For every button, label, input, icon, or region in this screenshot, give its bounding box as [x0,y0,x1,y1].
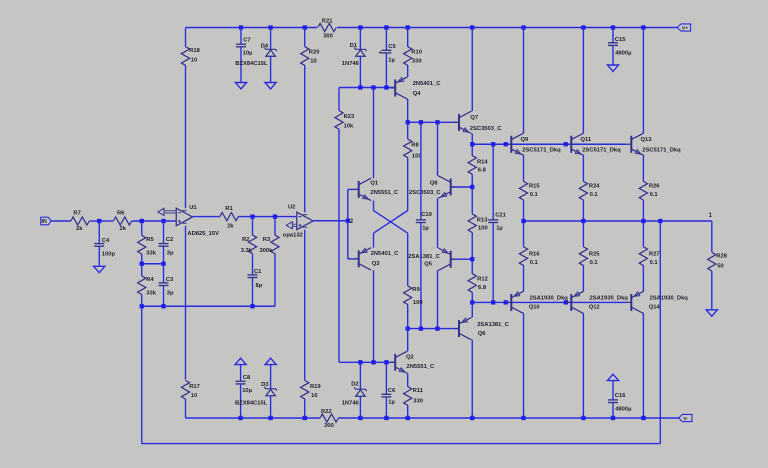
svg-text:100: 100 [413,300,423,306]
svg-text:Q13: Q13 [641,137,653,143]
svg-text:R6: R6 [117,210,125,216]
svg-text:2SC3503_C: 2SC3503_C [470,126,502,132]
svg-text:R13: R13 [477,217,488,223]
svg-text:R8: R8 [411,143,419,149]
svg-text:2SC5171_Dkq: 2SC5171_Dkq [642,148,681,154]
svg-text:330: 330 [413,399,423,405]
svg-text:R28: R28 [716,253,727,259]
svg-text:Q1: Q1 [370,181,379,187]
svg-text:C2: C2 [166,237,173,243]
svg-text:IN: IN [42,219,47,225]
svg-text:C4: C4 [102,238,110,244]
svg-text:Q2: Q2 [406,355,414,361]
svg-text:AD825_15V: AD825_15V [187,231,219,237]
svg-text:R27: R27 [649,251,660,257]
svg-text:3.3k: 3.3k [241,248,253,254]
svg-text:D4: D4 [261,43,269,49]
svg-text:0.1: 0.1 [590,192,599,198]
svg-text:opa132: opa132 [283,233,303,239]
svg-text:R4: R4 [146,277,154,283]
svg-text:R10: R10 [411,50,422,56]
svg-text:R14: R14 [477,160,488,166]
svg-text:300: 300 [324,423,334,429]
svg-text:C1: C1 [254,269,262,275]
svg-text:Q8: Q8 [430,180,439,186]
svg-text:0.1: 0.1 [590,260,599,266]
svg-text:1µ: 1µ [388,58,395,64]
svg-text:1µ: 1µ [388,400,395,406]
svg-text:R11: R11 [413,388,424,394]
svg-text:2N5551_C: 2N5551_C [407,364,436,370]
svg-text:2k: 2k [227,224,234,230]
svg-text:+: + [378,51,382,57]
svg-text:2SC5171_Dkq: 2SC5171_Dkq [582,148,621,154]
svg-text:3p: 3p [167,251,174,257]
svg-text:2N5401_C: 2N5401_C [371,251,400,257]
svg-text:1µ: 1µ [496,225,503,231]
svg-text:R23: R23 [344,114,355,120]
svg-text:2N5551_C: 2N5551_C [370,190,399,196]
svg-text:2SA1930_Dkq: 2SA1930_Dkq [590,295,629,301]
svg-text:R12: R12 [477,276,488,282]
svg-text:C5: C5 [388,44,396,50]
svg-text:1N746: 1N746 [342,61,360,67]
svg-text:4800µ: 4800µ [615,407,631,413]
svg-text:D1: D1 [350,43,358,49]
svg-text:2SA1381_C: 2SA1381_C [408,254,440,260]
svg-text:R2: R2 [242,237,249,243]
svg-text:V+: V+ [682,25,688,31]
svg-text:10k: 10k [344,124,354,130]
svg-text:6.8: 6.8 [478,285,487,291]
svg-text:R5: R5 [146,237,154,243]
svg-text:10: 10 [311,393,317,399]
svg-text:6.8: 6.8 [478,168,487,174]
svg-text:Q4: Q4 [413,91,422,97]
svg-text:2k: 2k [120,226,127,232]
svg-text:R3: R3 [263,237,271,243]
svg-text:R20: R20 [309,50,320,56]
svg-text:10µ: 10µ [243,51,253,57]
svg-text:R26: R26 [649,183,660,189]
svg-text:50: 50 [717,263,723,269]
svg-text:Q5: Q5 [424,262,433,268]
svg-text:3p: 3p [167,291,174,297]
svg-text:Q11: Q11 [581,137,592,143]
svg-text:2k: 2k [76,226,83,232]
svg-text:1µ: 1µ [422,225,429,231]
svg-text:U1: U1 [189,205,197,211]
svg-text:Q10: Q10 [529,305,540,311]
svg-text:R21: R21 [322,19,333,25]
svg-text:Q6: Q6 [478,331,487,337]
svg-text:10: 10 [191,393,197,399]
svg-text:2SA1930_Dkq: 2SA1930_Dkq [650,295,689,301]
svg-text:R22: R22 [321,409,332,415]
svg-text:C7: C7 [243,38,250,44]
svg-text:1N746: 1N746 [342,401,360,407]
svg-text:R24: R24 [589,183,600,189]
svg-text:C6: C6 [388,388,396,394]
svg-text:R7: R7 [73,210,80,216]
svg-text:D3: D3 [261,382,269,388]
svg-text:Q12: Q12 [589,305,600,311]
svg-text:10: 10 [310,59,316,65]
svg-text:4800µ: 4800µ [615,51,631,57]
svg-text:2SA1930_Dkq: 2SA1930_Dkq [530,295,569,301]
svg-text:R17: R17 [189,384,200,390]
svg-text:R19: R19 [310,384,321,390]
svg-text:C16: C16 [615,393,626,399]
svg-text:0.1: 0.1 [650,260,659,266]
svg-text:R1: R1 [225,206,233,212]
svg-text:Q9: Q9 [521,137,530,143]
svg-text:10µ: 10µ [242,388,252,394]
svg-text:2N5401_C: 2N5401_C [413,81,442,87]
svg-text:BZX84C15L: BZX84C15L [235,61,268,67]
svg-text:8p: 8p [256,283,263,289]
svg-text:0.1: 0.1 [530,260,539,266]
svg-text:0.1: 0.1 [530,192,539,198]
svg-text:C15: C15 [615,37,626,43]
svg-text:C8: C8 [243,375,251,381]
svg-text:R18: R18 [189,48,200,54]
svg-text:R16: R16 [529,251,540,257]
svg-text:R25: R25 [589,251,600,257]
svg-text:100: 100 [412,154,422,160]
svg-text:2SC3503_C: 2SC3503_C [409,190,441,196]
svg-text:D2: D2 [351,381,358,387]
svg-text:C3: C3 [166,277,174,283]
svg-text:0.1: 0.1 [650,192,659,198]
svg-text:Q3: Q3 [372,261,381,267]
svg-text:300: 300 [323,33,333,39]
svg-text:330: 330 [412,59,422,65]
svg-text:Q7: Q7 [470,115,478,121]
svg-text:300k: 300k [259,248,273,254]
svg-text:BZX84C15L: BZX84C15L [235,401,268,407]
svg-text:C21: C21 [495,213,506,219]
svg-text:U2: U2 [288,205,295,211]
svg-text:Q14: Q14 [649,305,661,311]
svg-text:10: 10 [191,58,197,64]
svg-text:100p: 100p [102,252,116,258]
svg-text:C19: C19 [421,212,432,218]
svg-text:33k: 33k [146,250,156,256]
svg-text:33k: 33k [146,290,156,296]
svg-text:2SA1381_C: 2SA1381_C [477,322,509,328]
svg-text:V-: V- [683,416,688,422]
svg-text:R15: R15 [529,183,540,189]
svg-text:2SC5171_Dkq: 2SC5171_Dkq [522,148,561,154]
svg-text:100: 100 [478,226,488,232]
svg-text:R9: R9 [412,287,420,293]
